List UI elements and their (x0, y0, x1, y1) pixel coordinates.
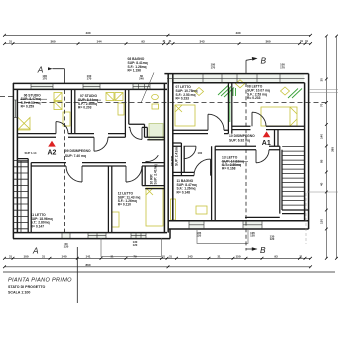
svg-text:SUP: 6.92 mq: SUP: 6.92 mq (229, 139, 250, 143)
svg-text:430: 430 (235, 31, 240, 35)
svg-text:PIANTA PIANO PRIMO: PIANTA PIANO PRIMO (8, 278, 72, 284)
svg-text:SUP: 2.41mq: SUP: 2.41mq (153, 164, 157, 184)
svg-text:170: 170 (42, 77, 47, 81)
svg-text:SUP 1.14: SUP 1.14 (25, 151, 37, 155)
svg-text:144: 144 (96, 40, 101, 44)
svg-text:A2: A2 (48, 150, 57, 157)
svg-text:240: 240 (139, 77, 144, 81)
svg-text:141: 141 (85, 254, 90, 258)
svg-text:120: 120 (133, 243, 138, 247)
svg-text:40: 40 (319, 182, 323, 186)
svg-text:B: B (261, 55, 267, 65)
svg-text:395: 395 (331, 147, 335, 152)
svg-text:93: 93 (141, 40, 145, 44)
svg-text:31: 31 (111, 254, 114, 258)
svg-text:70: 70 (319, 103, 323, 107)
svg-text:360: 360 (50, 40, 55, 44)
svg-text:100: 100 (198, 151, 203, 155)
svg-text:R= 0.148: R= 0.148 (177, 190, 191, 194)
svg-text:R= 0.203: R= 0.203 (78, 106, 92, 110)
svg-text:120: 120 (270, 237, 275, 241)
svg-text:STATO DI PROGETTO: STATO DI PROGETTO (8, 285, 45, 289)
svg-text:31: 31 (218, 254, 221, 258)
svg-text:430: 430 (85, 31, 90, 35)
svg-text:170: 170 (87, 77, 92, 81)
svg-text:143: 143 (187, 254, 192, 258)
svg-text:170: 170 (280, 65, 285, 69)
svg-text:R= 1.196: R= 1.196 (128, 69, 142, 73)
svg-text:SUP: 7.40 mq: SUP: 7.40 mq (65, 154, 86, 158)
svg-text:170: 170 (211, 65, 216, 69)
svg-text:09 DISIMPEGNO: 09 DISIMPEGNO (65, 149, 91, 153)
svg-text:130: 130 (319, 219, 323, 224)
svg-text:79: 79 (133, 254, 137, 258)
svg-text:120: 120 (64, 245, 69, 249)
svg-text:31: 31 (9, 254, 12, 258)
svg-text:10 DISIMPEGNO: 10 DISIMPEGNO (229, 134, 255, 138)
svg-text:31: 31 (42, 254, 45, 258)
svg-text:93: 93 (274, 254, 278, 258)
svg-text:A: A (32, 245, 39, 255)
svg-text:140: 140 (319, 134, 323, 139)
svg-text:SCALA 1:100: SCALA 1:100 (8, 291, 30, 295)
svg-text:R= 0.233: R= 0.233 (176, 97, 190, 101)
svg-text:140: 140 (61, 254, 66, 258)
svg-text:31: 31 (300, 254, 303, 258)
svg-text:R= 0.259: R= 0.259 (21, 105, 35, 109)
svg-text:343: 343 (199, 40, 204, 44)
svg-text:SUP: 2.41mq: SUP: 2.41mq (174, 146, 178, 166)
svg-text:150: 150 (235, 254, 240, 258)
svg-text:100: 100 (23, 254, 28, 258)
svg-text:860: 860 (85, 263, 90, 267)
svg-text:30: 30 (319, 78, 323, 82)
svg-text:R= 0.147: R= 0.147 (31, 224, 45, 228)
svg-text:360: 360 (265, 40, 270, 44)
svg-text:95: 95 (319, 159, 323, 163)
svg-text:120: 120 (250, 234, 255, 238)
svg-text:B: B (260, 245, 266, 255)
svg-text:R= 0.110: R= 0.110 (118, 203, 131, 207)
svg-text:31: 31 (9, 40, 12, 44)
svg-text:R= 0.168: R= 0.168 (222, 167, 236, 171)
svg-text:R= 0.233: R= 0.233 (247, 96, 261, 100)
svg-text:A1: A1 (262, 140, 271, 147)
svg-text:120: 120 (196, 234, 201, 238)
